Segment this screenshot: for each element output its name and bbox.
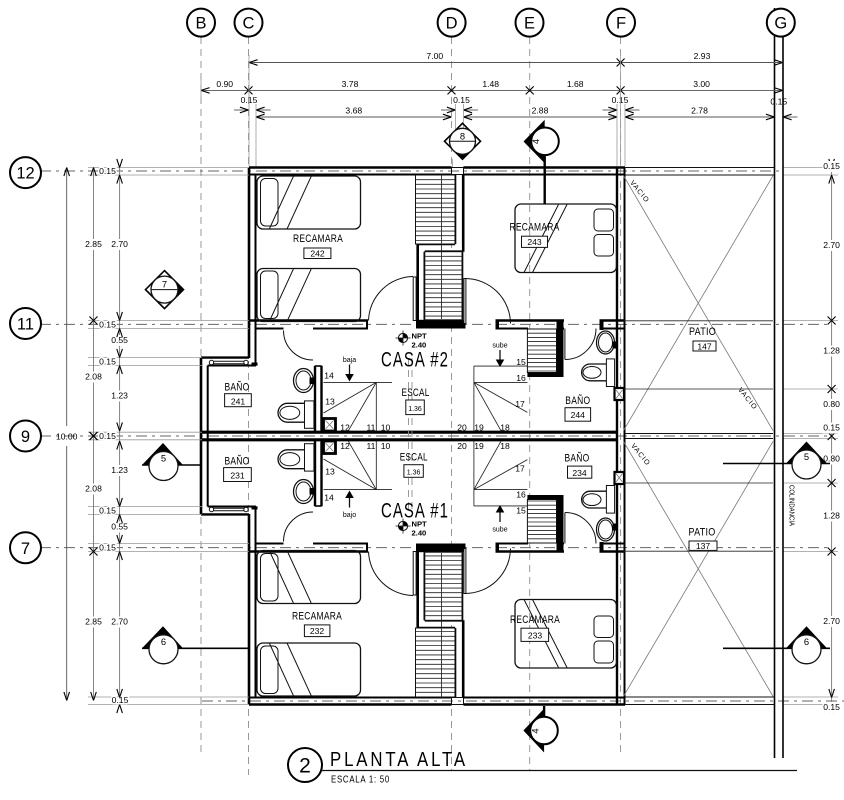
svg-text:PLANTA ALTA: PLANTA ALTA [330,748,468,771]
svg-text:20: 20 [457,441,467,451]
svg-text:14: 14 [324,371,334,381]
svg-text:baja: baja [343,357,356,364]
grid line B (vertical dashed) [200,37,202,757]
svg-text:0.15: 0.15 [99,431,116,441]
right dim line [831,168,833,705]
grid bubble E [516,9,544,37]
svg-text:2.78: 2.78 [691,106,708,116]
top dim extension stubs [248,55,250,166]
svg-text:8: 8 [460,130,465,141]
svg-text:0.90: 0.90 [216,79,233,89]
svg-text:16: 16 [516,490,526,500]
svg-text:CASA #1: CASA #1 [381,500,449,523]
svg-text:10: 10 [381,423,391,433]
svg-text:17: 17 [515,464,525,474]
svg-text:ESCALA 1: 50: ESCALA 1: 50 [331,774,390,786]
svg-text:10.00: 10.00 [56,432,78,442]
grid line C (vertical dashed) [248,37,250,775]
NPT level marker [398,521,407,530]
svg-text:0.15: 0.15 [99,543,116,553]
svg-text:231: 231 [230,471,245,481]
svg-text:BAÑO: BAÑO [225,455,250,468]
svg-text:19: 19 [474,423,484,433]
left dim line mid [93,168,95,701]
section marker 5 right [723,463,830,465]
svg-text:2.70: 2.70 [111,617,128,627]
grid row 11 (horizontal dash-dot) [40,323,832,325]
svg-text:0.15: 0.15 [99,320,116,330]
svg-text:2.85: 2.85 [85,617,102,627]
svg-text:0.80: 0.80 [823,454,840,464]
svg-text:C: C [243,15,255,33]
svg-text:bajo: bajo [343,512,356,519]
svg-text:sube: sube [492,527,507,534]
baja arrow casa1 [345,491,354,499]
svg-text:sube: sube [492,343,507,350]
svg-text:233: 233 [528,631,543,641]
svg-text:RECAMARA: RECAMARA [292,611,342,623]
svg-text:2.70: 2.70 [823,240,840,250]
top dim row B [201,89,783,91]
svg-text:0.55: 0.55 [111,335,128,345]
svg-text:0.15: 0.15 [99,166,116,176]
svg-text:2.70: 2.70 [823,616,840,626]
svg-text:5: 5 [804,451,809,462]
top dim row A [249,62,783,64]
svg-text:3.68: 3.68 [345,106,362,116]
detail diamond 8 [445,123,481,159]
svg-text:1.28: 1.28 [823,511,840,521]
grid bubble 7 [10,532,41,563]
grid bubble D [438,9,466,37]
grid row 12 (horizontal dash-dot) [40,170,783,172]
svg-text:2: 2 [299,755,311,778]
svg-text:1.28: 1.28 [823,346,840,356]
svg-text:9: 9 [21,428,30,446]
svg-text:0.15: 0.15 [770,97,787,107]
svg-text:RECAMARA: RECAMARA [510,222,560,234]
grid bubble B [187,9,215,37]
grid row 7 (horizontal dash-dot) [40,547,832,549]
svg-text:RECAMARA: RECAMARA [293,233,343,245]
svg-text:3.78: 3.78 [342,79,359,89]
svg-text:7: 7 [162,279,167,290]
svg-text:1.68: 1.68 [567,79,584,89]
svg-text:0.15: 0.15 [823,161,840,171]
svg-text:0.15: 0.15 [99,506,116,516]
grid bubble 9 [10,421,41,452]
svg-text:D: D [446,15,458,33]
svg-text:4: 4 [530,728,541,733]
svg-text:242: 242 [310,249,325,259]
svg-text:PATIO: PATIO [689,527,716,539]
svg-text:15: 15 [516,506,526,516]
grid bubble 11 [10,308,41,339]
svg-text:0.15: 0.15 [823,702,840,712]
svg-text:13: 13 [325,397,335,407]
svg-text:232: 232 [310,626,325,636]
svg-text:2.70: 2.70 [111,239,128,249]
svg-text:1.48: 1.48 [482,79,499,89]
section marker 6 right [723,647,830,649]
svg-text:BAÑO: BAÑO [565,394,590,407]
svg-text:0.80: 0.80 [823,399,840,409]
section marker 4 bottom [543,706,545,720]
svg-text:0.15: 0.15 [823,423,840,433]
svg-text:147: 147 [697,342,712,352]
svg-text:10: 10 [381,441,391,451]
svg-text:0.55: 0.55 [111,522,128,532]
svg-text:BAÑO: BAÑO [565,452,590,465]
svg-text:PATIO: PATIO [689,326,716,338]
svg-text:241: 241 [231,396,246,406]
svg-text:12: 12 [16,165,34,183]
svg-text:RECAMARA: RECAMARA [510,614,560,626]
svg-text:2.08: 2.08 [85,484,102,494]
svg-text:12: 12 [340,441,350,451]
svg-text:11: 11 [367,441,376,451]
svg-text:1.23: 1.23 [111,465,128,475]
grid line E (vertical dashed) [529,37,531,770]
svg-text:0.15: 0.15 [612,95,629,105]
section marker 5 left [142,464,201,466]
grid bubble G [767,9,795,37]
svg-text:1.23: 1.23 [111,391,128,401]
svg-text:137: 137 [696,541,711,551]
grid bubble F [607,9,635,37]
left dim line 10.00 [66,168,68,427]
sube arrow casa1 [496,505,505,513]
svg-text:0.15: 0.15 [99,357,116,367]
svg-text:234: 234 [572,468,587,478]
svg-text:F: F [616,15,626,33]
svg-text:E: E [524,15,535,33]
svg-text:4: 4 [530,139,541,144]
svg-text:7: 7 [21,540,30,558]
svg-text:1.36: 1.36 [407,470,421,477]
svg-text:NPT: NPT [412,332,428,341]
svg-text:18: 18 [500,441,510,451]
svg-text:2.93: 2.93 [694,51,711,61]
svg-text:1.36: 1.36 [408,406,422,413]
svg-text:11: 11 [367,423,376,433]
svg-text:2.40: 2.40 [412,529,427,538]
svg-text:17: 17 [515,399,525,409]
svg-text:G: G [774,15,787,33]
svg-text:15: 15 [516,357,526,367]
stair opening dashed rails [408,358,410,514]
svg-text:5: 5 [161,453,166,464]
NPT level marker [398,333,407,342]
svg-text:6: 6 [804,636,809,647]
grid row 9 (horizontal dash-dot) [40,435,832,437]
svg-text:14: 14 [324,493,334,503]
svg-text:2.08: 2.08 [85,372,102,382]
section marker 6 left [142,647,249,649]
svg-text:12: 12 [340,423,350,433]
svg-text:19: 19 [474,441,484,451]
left dim line inner [119,168,121,705]
svg-text:BAÑO: BAÑO [225,381,250,394]
svg-text:ESCAL: ESCAL [402,387,430,399]
svg-text:ESCAL: ESCAL [400,452,428,464]
grid bubble C [235,9,263,37]
svg-text:COLINDANCIA: COLINDANCIA [788,485,795,526]
svg-text:0.15: 0.15 [453,95,470,105]
svg-text:2.88: 2.88 [532,106,549,116]
svg-text:3.00: 3.00 [693,79,710,89]
title circle 2 [288,748,322,782]
bottom wall centerline dash [202,700,844,702]
G colindancia wall lines [774,8,776,758]
detail diamond 7 [146,271,184,309]
svg-text:11: 11 [17,316,34,334]
grid line F (vertical dashed) [620,37,622,757]
svg-text:B: B [195,15,206,33]
svg-text:7.00: 7.00 [426,51,443,61]
svg-text:20: 20 [457,423,467,433]
grid line D (vertical dashed) [451,37,453,770]
svg-text:13: 13 [325,467,335,477]
section marker 4 top [544,152,546,204]
svg-text:CASA #2: CASA #2 [381,349,449,372]
svg-text:2.85: 2.85 [85,239,102,249]
grid bubble 12 [10,157,41,188]
svg-text:6: 6 [161,636,166,647]
svg-text:243: 243 [527,237,542,247]
svg-text:244: 244 [571,410,586,420]
svg-text:18: 18 [500,423,510,433]
svg-text:16: 16 [516,373,526,383]
